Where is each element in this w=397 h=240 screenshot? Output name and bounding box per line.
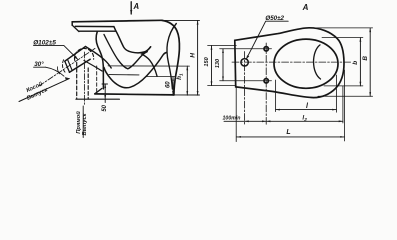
l2 arrows bbox=[266, 120, 270, 122]
shelf lower-left bevel bbox=[72, 25, 79, 31]
svg-text:30°: 30° bbox=[34, 61, 44, 68]
pedestal base flare bbox=[95, 89, 102, 94]
oblique outlet pipe upper line bbox=[65, 47, 86, 62]
30 degree reference line bbox=[34, 66, 46, 68]
b dimension line bbox=[359, 38, 361, 86]
rim second line bbox=[75, 26, 116, 30]
straight outlet centerline bbox=[83, 52, 85, 106]
cistern bolt hole upper bbox=[264, 47, 268, 51]
b extension lines bbox=[322, 38, 363, 86]
straight outlet hidden right line bbox=[87, 68, 89, 99]
oblique outlet end cut line bbox=[65, 61, 70, 72]
svg-text:A: A bbox=[302, 3, 309, 12]
B extension lines bbox=[312, 28, 373, 96]
svg-text:50: 50 bbox=[102, 104, 108, 111]
floor extension line to H dimension bbox=[174, 94, 200, 96]
l extension lines bbox=[276, 75, 337, 112]
arrowhead of diameter 50 leader bbox=[246, 55, 249, 59]
bolt holes vertical centerline, extends to l2 dimension bbox=[265, 43, 267, 124]
h1 dimension line bbox=[186, 66, 188, 95]
sump section V bbox=[104, 35, 147, 69]
150 dimension line bbox=[211, 46, 213, 86]
svg-text:b: b bbox=[352, 61, 359, 65]
top rim extension line to H dimension bbox=[162, 19, 200, 21]
svg-text:H: H bbox=[189, 53, 196, 58]
130 dimension line bbox=[222, 49, 224, 81]
svg-text:h1: h1 bbox=[176, 73, 184, 80]
h1 extension line and water level line bbox=[108, 65, 190, 67]
100min arrows bbox=[245, 120, 249, 122]
svg-text:B: B bbox=[362, 56, 369, 61]
50 dimension tick line bbox=[102, 83, 108, 85]
130 extension lines bbox=[220, 49, 272, 81]
50 dimension line bbox=[104, 84, 106, 103]
60 dimension line bbox=[172, 77, 174, 96]
bowl outer right profile bbox=[162, 20, 179, 95]
svg-text:130: 130 bbox=[215, 58, 221, 68]
floor line bbox=[95, 94, 174, 95]
svg-text:A: A bbox=[133, 2, 140, 11]
bowl back exterior curve down to pedestal left edge bbox=[96, 31, 103, 88]
hidden trap circle (dashed) bbox=[74, 48, 93, 60]
svg-text:l2: l2 bbox=[302, 114, 307, 122]
L right extension line bbox=[344, 70, 346, 141]
B dimension line bbox=[369, 28, 371, 96]
outlet throat upper wall bbox=[86, 47, 112, 69]
straight outlet hidden left line bbox=[76, 63, 78, 100]
svg-text:l: l bbox=[306, 103, 309, 110]
30 degree angle arc bbox=[46, 67, 65, 76]
flush hole circle bbox=[241, 59, 248, 66]
inner right wall arc bbox=[167, 24, 176, 90]
pedestal inner edge bbox=[96, 66, 98, 94]
arrowhead of diameter 102 leader bbox=[74, 56, 78, 60]
flush hole vertical centerline, extends to 100min dimension bbox=[244, 52, 246, 126]
cistern bolt hole lower bbox=[264, 79, 268, 83]
leader line of diameter 102 label bbox=[34, 45, 78, 59]
shelf left edge bbox=[71, 22, 73, 25]
150 extension lines bbox=[208, 46, 237, 86]
svg-text:60: 60 bbox=[165, 81, 171, 88]
l dimension line bbox=[276, 109, 337, 111]
straight outlet label shelf line bbox=[82, 106, 84, 138]
inner visor crescent bbox=[314, 45, 321, 79]
svg-text:100min: 100min bbox=[223, 116, 241, 122]
shelf underside line bbox=[79, 30, 115, 32]
hidden outlet end arc (dashed) bbox=[62, 60, 65, 73]
bowl rim oval bbox=[274, 39, 338, 88]
horizontal centerline bbox=[232, 61, 352, 63]
oblique outlet axis centerline bbox=[39, 48, 95, 86]
bowl inner visor slope bbox=[116, 31, 151, 53]
svg-text:Выпуск: Выпуск bbox=[82, 112, 88, 135]
beak underside and outlet throat inner wall bbox=[142, 47, 157, 76]
l2 and 100min shared dimension line bbox=[224, 120, 343, 122]
outlet throat lower wall bbox=[84, 61, 102, 72]
l2 right extension line bbox=[342, 86, 344, 123]
svg-text:L: L bbox=[286, 129, 290, 136]
H dimension line bbox=[197, 20, 199, 95]
top view outline bbox=[235, 28, 344, 98]
ground line under outlet bbox=[76, 98, 119, 100]
top rim line bbox=[72, 20, 162, 22]
bowl underbelly curve bbox=[104, 53, 166, 88]
sump lower water line bbox=[109, 74, 139, 76]
leader line of oblique outlet label bbox=[19, 79, 69, 102]
svg-text:150: 150 bbox=[204, 56, 210, 66]
leader line of diameter 50 label bbox=[246, 21, 288, 59]
L left extension line bbox=[235, 88, 237, 142]
oblique outlet pipe lower line bbox=[70, 59, 91, 72]
oblique outlet inner cut line bbox=[68, 59, 73, 70]
view direction arrow A bbox=[130, 2, 132, 14]
svg-text:Ø102±5: Ø102±5 bbox=[33, 39, 56, 46]
svg-text:Ø50±2: Ø50±2 bbox=[265, 15, 284, 22]
L dimension line bbox=[237, 136, 345, 138]
arrowhead of oblique outlet leader bbox=[65, 77, 70, 80]
60 extension line bbox=[147, 76, 176, 78]
